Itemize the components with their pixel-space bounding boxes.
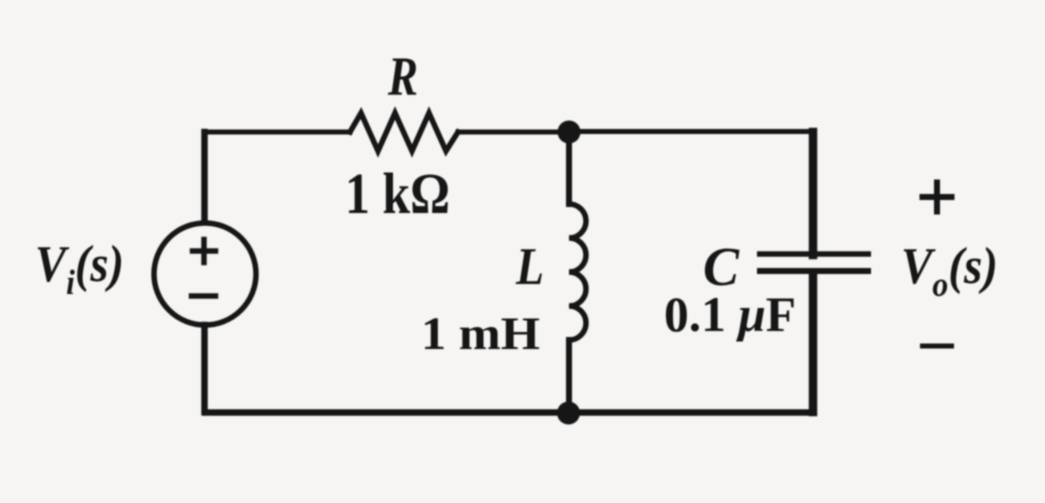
svg-text:1 kΩ: 1 kΩ (345, 161, 450, 226)
output plus sign (923, 183, 952, 212)
capacitor C1 top plate (757, 251, 871, 257)
svg-text:Vo(s): Vo(s) (901, 238, 998, 304)
node B junction dot (bottom) (557, 402, 580, 425)
wire middle vertical lower (inductor to bottom node) (566, 340, 572, 413)
node A junction dot (top) (558, 121, 581, 144)
source minus sign (192, 293, 216, 299)
wire top-right segment (node A to right corner) (569, 129, 813, 134)
wire top-left segment (top wire from left corner to resistor) (205, 130, 350, 135)
voltage source V_i circle (154, 223, 256, 325)
svg-text:L: L (515, 238, 544, 296)
wire bottom (left corner to right corner) (205, 409, 813, 416)
source plus sign (193, 240, 216, 263)
wire left vertical lower (source down to bottom corner) (201, 325, 208, 412)
capacitor C1 bottom plate (757, 268, 871, 274)
wire right vertical upper (top corner down to capacitor) (809, 132, 818, 255)
wire top-middle segment (resistor to node A) (458, 130, 569, 135)
wire left vertical upper (top corner down to source) (201, 132, 208, 222)
wire middle vertical upper (node A down to inductor) (566, 132, 572, 204)
svg-text:R: R (387, 46, 418, 107)
inductor L1 coil (569, 204, 586, 340)
output minus sign (923, 344, 952, 349)
wire right vertical lower (capacitor down to bottom corner) (809, 273, 818, 413)
svg-text:1 mH: 1 mH (421, 308, 540, 360)
svg-text:Vi(s): Vi(s) (35, 236, 124, 302)
resistor R1 zigzag (350, 113, 458, 151)
svg-text:0.1 μF: 0.1 μF (664, 286, 796, 342)
